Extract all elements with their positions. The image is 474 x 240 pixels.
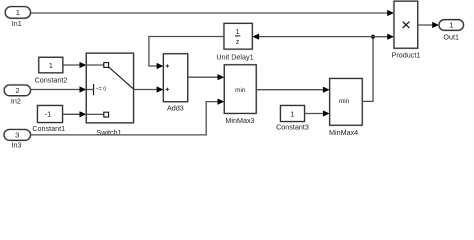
svg-text:Constant3: Constant3 <box>276 123 309 132</box>
wire MinMax3 to MinMax4 in1 <box>256 87 330 93</box>
svg-text:Product1: Product1 <box>392 51 421 60</box>
svg-text:In1: In1 <box>12 19 22 28</box>
constant Constant3 <box>276 106 309 132</box>
svg-text:-1: -1 <box>45 109 52 118</box>
svg-text:1: 1 <box>236 29 240 36</box>
svg-text:Constant2: Constant2 <box>35 75 68 84</box>
inport In1 <box>5 7 30 29</box>
svg-text:min: min <box>235 87 246 94</box>
wire Constant3 to MinMax4 in2 <box>305 110 330 116</box>
wire junction to Product1 in2 <box>373 34 394 40</box>
wire In3 to MinMax3 in2 <box>31 99 225 135</box>
svg-text:In2: In2 <box>11 96 21 105</box>
adder Add3 <box>163 54 187 113</box>
wire junction to Unit Delay1 input (feedback) <box>252 34 373 40</box>
svg-text:z: z <box>236 39 240 46</box>
inport In2 <box>4 85 30 105</box>
junction node <box>371 35 375 39</box>
pin stub top input <box>86 64 104 66</box>
constant Constant1 <box>32 106 65 134</box>
outport Out1 <box>439 20 464 42</box>
wire Switch1 to Add3 in2 <box>134 86 164 92</box>
wire Constant1 to Switch1 in3 <box>63 111 87 117</box>
wire Add3 to MinMax3 in1 <box>188 74 225 80</box>
wire In2 to Switch1 in2 <box>31 86 87 92</box>
svg-text:3: 3 <box>15 131 19 140</box>
unit delay Unit Delay1 <box>216 23 253 61</box>
switch arm (diagonal) <box>109 67 134 89</box>
switch Switch1 <box>86 53 133 137</box>
wire MinMax4 out up to junction <box>362 37 373 102</box>
svg-text:MinMax4: MinMax4 <box>329 128 358 137</box>
svg-text:Add3: Add3 <box>167 104 184 113</box>
criteria tick pin 2 <box>93 84 95 95</box>
svg-text:2: 2 <box>15 86 19 95</box>
svg-text:min: min <box>339 98 350 105</box>
svg-text:MinMax3: MinMax3 <box>225 116 254 125</box>
svg-text:Switch1: Switch1 <box>96 128 121 137</box>
wire Constant2 to Switch1 in1 <box>63 62 87 68</box>
minmax MinMax3 <box>224 65 256 125</box>
svg-text:1: 1 <box>290 109 294 118</box>
svg-text:~= 0: ~= 0 <box>96 87 107 93</box>
pin stub bottom input <box>86 113 104 115</box>
svg-text:1: 1 <box>49 61 53 70</box>
inport In3 <box>4 130 31 150</box>
svg-text:1: 1 <box>16 8 20 17</box>
svg-text:Constant1: Constant1 <box>32 124 65 133</box>
product Product1 <box>392 1 421 60</box>
minmax MinMax4 <box>329 79 362 138</box>
constant Constant2 <box>35 57 68 84</box>
wire Unit Delay1 to Add3 in1 (feedback loop) <box>149 37 224 70</box>
wire Product1 to Out1 <box>418 22 439 28</box>
port square pin 3 <box>104 112 109 117</box>
svg-text:Out1: Out1 <box>443 32 459 41</box>
svg-text:1: 1 <box>449 21 453 30</box>
wire In1 to Product1 in1 <box>31 10 395 16</box>
svg-text:Unit Delay1: Unit Delay1 <box>216 53 253 62</box>
svg-text:In3: In3 <box>12 141 22 150</box>
port square pin 1 <box>104 63 109 68</box>
